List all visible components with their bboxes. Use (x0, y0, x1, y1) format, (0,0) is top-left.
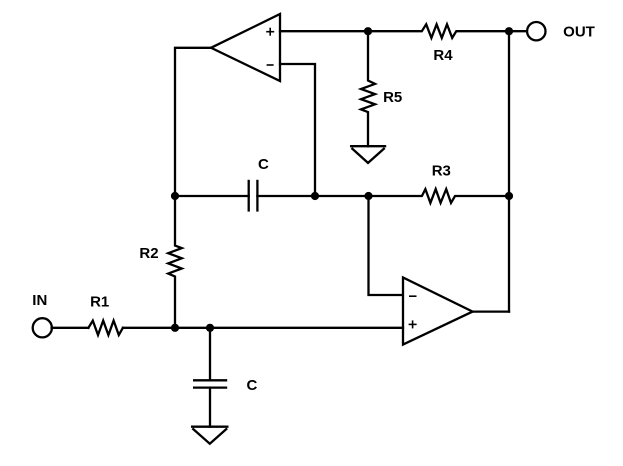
node A (R4 / R5 junction) (364, 27, 372, 35)
resistor R5 (361, 31, 375, 146)
node (U1 inverting tap) (311, 192, 319, 200)
node B (output junction) (505, 27, 513, 35)
svg-text:R1: R1 (90, 294, 109, 311)
node (U1 output / R2 top / C left) (171, 192, 179, 200)
op-amp U2 (403, 278, 473, 345)
node G (input capacitor tap) (206, 324, 214, 332)
node F (R2 bottom) (171, 324, 179, 332)
svg-text:OUT: OUT (563, 24, 595, 41)
svg-text:R5: R5 (383, 89, 402, 106)
svg-text:R3: R3 (432, 162, 451, 179)
resistor R4 (368, 24, 509, 38)
wire output column (508, 31, 510, 311)
op-amp U2 inverting pin label (409, 295, 417, 297)
op-amp U1 inverting pin label (267, 64, 274, 66)
wire capacitor C bottom plate to ground (209, 388, 211, 427)
node D (R3 left / U2 inverting feed) (364, 192, 372, 200)
wire node B to OUT terminal (509, 30, 527, 32)
svg-text:IN: IN (32, 292, 47, 309)
svg-text:C: C (246, 377, 257, 394)
node E (R3 right on output column) (505, 192, 513, 200)
capacitor C (feedback) (248, 180, 250, 212)
resistor R1 (88, 321, 123, 335)
terminal IN (33, 318, 52, 337)
op-amp U1 (211, 14, 280, 81)
op-amp U1 noninverting pin label (266, 28, 274, 36)
wire U2 output (473, 310, 509, 312)
ground G1 (350, 146, 386, 163)
terminal OUT (527, 22, 545, 40)
capacitor C (input) (193, 379, 227, 381)
ground G2 (191, 427, 229, 444)
wire capacitor C right plate to node D (257, 195, 368, 197)
wire IN terminal to R1 (52, 327, 89, 329)
wire node D to U2 inverting input (369, 196, 403, 295)
resistor R2 (168, 196, 182, 328)
resistor R3 (369, 189, 510, 203)
wire U1 noninverting input to node A (280, 30, 368, 32)
wire node G to capacitor C top plate (209, 328, 211, 381)
wire node to capacitor C left plate (175, 195, 249, 197)
wire U1 output feedback (175, 48, 211, 196)
svg-text:C: C (258, 156, 269, 173)
svg-text:R2: R2 (139, 245, 158, 262)
op-amp U2 noninverting pin label (409, 320, 417, 328)
svg-text:R4: R4 (433, 47, 453, 64)
wire U1 inverting input to node (280, 64, 315, 196)
wire R1 to U2 noninverting input (123, 327, 403, 329)
